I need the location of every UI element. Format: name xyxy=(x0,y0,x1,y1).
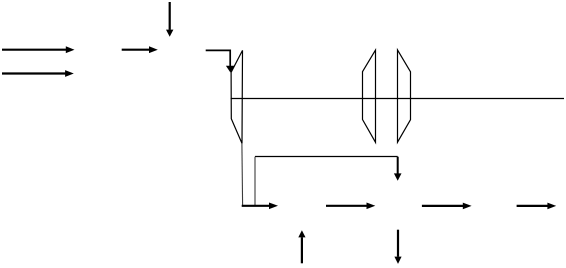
lens L2 xyxy=(363,50,376,142)
wire: elbow feed into lens L1 with down arrowhead xyxy=(206,50,235,72)
arrow B2 (bottom row) xyxy=(326,203,375,210)
arrow A4 (vertical down, top) xyxy=(166,2,173,37)
wire: drop from lens L1 bottom to arrow B1 xyxy=(241,143,244,205)
lens L3 xyxy=(398,50,411,142)
arrow B1 (bottom row) xyxy=(242,203,278,210)
lens L1 xyxy=(231,50,242,143)
arrow C2 (down, bottom right) xyxy=(394,230,401,264)
arrow A2 (lower left inflow) xyxy=(2,70,74,77)
arrow C1 (up, bottom left) xyxy=(298,230,305,263)
wire: connector left vertical xyxy=(254,157,256,206)
arrow B4 (bottom row) xyxy=(517,203,557,210)
wire: connector horizontal (y=157) xyxy=(255,156,398,158)
wire: optical axis xyxy=(231,98,564,100)
arrow B3 (bottom row) xyxy=(422,203,472,210)
arrow A3 (short middle arrow) xyxy=(122,46,158,53)
arrow: connector down stub xyxy=(394,157,402,181)
arrow A1 (upper left inflow) xyxy=(2,46,75,53)
